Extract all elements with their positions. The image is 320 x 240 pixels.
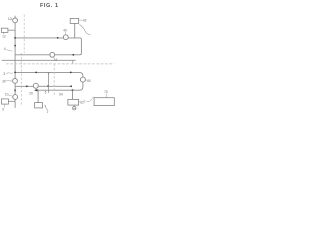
dashed vertical V4	[53, 64, 55, 96]
wire: box 12b to V1	[8, 100, 15, 102]
wire: box 12 to V1	[8, 29, 15, 31]
wire: rail to circle 60 and back as line F	[15, 72, 83, 90]
wire: loop line A right, down at x=81.4, back left as line B	[15, 38, 81, 55]
tick below box 12	[2, 32, 4, 34]
svg-text:42: 42	[83, 19, 87, 23]
pump circle 10	[13, 18, 18, 23]
svg-text:20: 20	[29, 91, 33, 95]
leader for label 40	[65, 32, 67, 35]
leader polyline near corner	[79, 24, 90, 35]
arrowhead left end of line F	[34, 89, 37, 92]
svg-text:60: 60	[87, 79, 91, 83]
svg-text:4: 4	[4, 47, 6, 51]
wire: main left vertical V1	[14, 23, 16, 108]
box 12 (top-left)	[1, 28, 8, 32]
circle 10b on V1	[13, 95, 18, 100]
leader for label 16	[53, 57, 55, 58]
dot on line E left	[26, 85, 28, 87]
svg-text:10: 10	[5, 93, 9, 97]
wavy leader for 30	[6, 80, 12, 82]
wavy leader for 3	[6, 72, 13, 75]
box 62	[68, 99, 79, 105]
dashed line D	[6, 63, 114, 65]
drain stem below box 62	[73, 105, 75, 107]
box 42	[70, 18, 78, 23]
vertical V5 to box 62	[72, 90, 74, 99]
tick from label 70 to box	[105, 93, 107, 97]
circle 60	[80, 77, 85, 82]
curved leader with hook	[45, 107, 48, 113]
vertical V6 to box B2	[37, 90, 39, 102]
wire: line E	[15, 85, 71, 87]
valve circle 40 on line A	[63, 35, 68, 40]
drain symbol cross	[73, 107, 76, 109]
junction dot V3 top	[47, 72, 50, 74]
dot on line B	[72, 54, 74, 56]
leader for label 10	[11, 18, 13, 21]
svg-text:0: 0	[2, 108, 4, 112]
wire: line C	[2, 59, 76, 61]
dot on line A	[57, 37, 59, 39]
svg-text:30: 30	[2, 79, 6, 83]
pump circle 16 on line B	[50, 52, 55, 57]
leader for label 4	[6, 50, 12, 52]
leader dash for 60	[86, 79, 87, 81]
leader for 10b	[8, 95, 13, 96]
svg-text:10: 10	[8, 17, 12, 21]
tick from line C to line D	[72, 60, 74, 64]
svg-text:54: 54	[59, 93, 63, 97]
box 70 bottom-right	[94, 98, 114, 106]
junction dot line F at V5	[72, 89, 74, 91]
junction dot V3 at line E	[47, 85, 49, 87]
circle 30 on V1	[13, 79, 18, 84]
junction dot A start	[14, 37, 16, 39]
svg-text:40: 40	[63, 28, 67, 32]
dashed vertical V2b	[20, 53, 22, 106]
vertical V3	[48, 72, 50, 92]
dark mark near bottom center	[45, 105, 46, 107]
wire: inlet stub above pump 10	[14, 16, 16, 18]
svg-text:3: 3	[3, 72, 5, 76]
box B2	[35, 103, 43, 108]
leader dash for 62	[79, 101, 80, 103]
svg-text:12: 12	[2, 35, 6, 39]
junction dot rail left	[14, 72, 16, 74]
dot on rail	[35, 72, 37, 74]
tick below box 12b	[3, 104, 5, 107]
arrow mark on V1 upper	[14, 45, 16, 48]
box 12b bottom-left	[2, 99, 9, 104]
arrow mark on V1 lower	[14, 90, 16, 93]
dot at line E right end	[70, 85, 72, 87]
dot on rail right	[70, 72, 72, 74]
wavy leader for label 7	[86, 97, 94, 102]
svg-text:FIG. 1: FIG. 1	[40, 3, 59, 9]
svg-text:7: 7	[84, 100, 86, 104]
wire: box 42 down to line A	[74, 23, 76, 38]
svg-text:5: 5	[45, 91, 47, 95]
dashed vertical V2a	[23, 15, 25, 54]
circle 2 on line E	[33, 83, 38, 88]
leader dash to label 42	[79, 19, 83, 21]
drain symbol	[73, 107, 76, 110]
